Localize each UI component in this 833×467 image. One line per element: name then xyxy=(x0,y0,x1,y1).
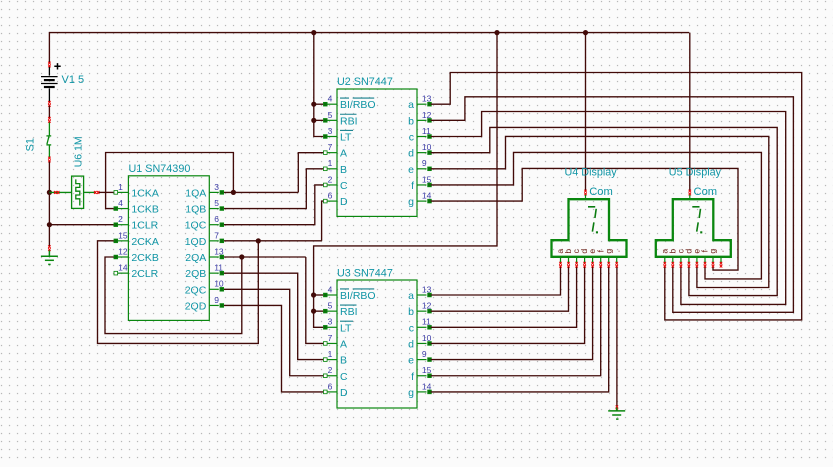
wire U3 f to U4 f xyxy=(431,267,601,376)
svg-text:10: 10 xyxy=(422,142,432,152)
pin marker U5 pin e xyxy=(696,262,699,268)
wire U3 RBI tap xyxy=(314,310,324,312)
U5 pin f stub xyxy=(704,257,706,263)
U2 pin 15 (f) stub xyxy=(417,184,427,186)
svg-text:S1: S1 xyxy=(25,138,37,151)
U2 pin 4 (BI/RBO) stub xyxy=(327,103,337,105)
U2 pin 9 (e) stub xyxy=(417,168,427,170)
svg-text:2QA: 2QA xyxy=(185,252,206,264)
U3 pin 7 (A) stub xyxy=(327,342,337,344)
U4 pin b stub xyxy=(568,257,570,263)
svg-text:1CKB: 1CKB xyxy=(131,204,158,216)
svg-text:a: a xyxy=(408,290,414,302)
svg-text:b: b xyxy=(408,306,414,318)
junction top rail / U3 +5 drop xyxy=(494,30,499,35)
svg-text:2CKA: 2CKA xyxy=(131,236,158,248)
U3 pin 9 (e) stub xyxy=(417,359,427,361)
svg-text:BI/RBO: BI/RBO xyxy=(340,99,376,111)
wire U2 e to U5 e xyxy=(431,136,769,287)
svg-text:1: 1 xyxy=(328,158,333,168)
pin marker U5 Com xyxy=(689,190,692,196)
svg-text:RBI: RBI xyxy=(340,115,358,127)
U2 pin 13 (a) stub xyxy=(417,103,427,105)
wire 2QA row xyxy=(224,256,306,258)
junction U3 BI/RBO xyxy=(311,292,316,297)
svg-text:5: 5 xyxy=(214,198,219,208)
wire S1 to ground rail segment xyxy=(48,162,50,247)
U2 pin 5 (RBI) stub xyxy=(327,119,337,121)
junction 1QA feedback xyxy=(231,190,236,195)
U5 digit segments showing 7. xyxy=(692,207,702,234)
pin marker U4 pin b xyxy=(567,262,570,268)
svg-text:13: 13 xyxy=(422,284,432,294)
U2 pin 3 (LT) stub xyxy=(327,136,337,138)
pin marker battery bottom xyxy=(48,101,51,107)
svg-text:7: 7 xyxy=(328,142,333,152)
U3 pin 4 (BI/RBO) stub xyxy=(327,294,337,296)
U3 pin 5 (RBI) stub xyxy=(327,310,337,312)
U4 pin e stub xyxy=(592,257,594,263)
U5 pin c stub xyxy=(680,257,682,263)
IC U2 body xyxy=(337,89,417,216)
svg-text:14: 14 xyxy=(422,191,432,201)
svg-text:1CLR: 1CLR xyxy=(131,220,158,232)
svg-text:2QC: 2QC xyxy=(185,284,207,296)
svg-text:2: 2 xyxy=(328,174,333,184)
pin marker battery top xyxy=(48,62,51,68)
svg-text:4: 4 xyxy=(328,94,333,104)
U4 pin c stub xyxy=(576,257,578,263)
U1 pin 5 (1QB) stub xyxy=(209,208,219,210)
wire 2QC to U3 C xyxy=(224,289,323,375)
wire U3 d to U4 d xyxy=(431,267,585,344)
wire U2 f to U5 f xyxy=(431,152,762,279)
svg-text:6: 6 xyxy=(214,214,219,224)
wire U4 dp to ground xyxy=(616,267,618,406)
U3 pin 6 (D) stub xyxy=(327,391,337,393)
U1 pin 3 (1QA) stub xyxy=(209,191,219,193)
svg-text:1: 1 xyxy=(118,182,123,192)
U5 pin d stub xyxy=(688,257,690,263)
svg-text:10: 10 xyxy=(214,279,224,289)
wire U2 c to U5 c xyxy=(431,112,786,305)
svg-text:14: 14 xyxy=(422,381,432,391)
U3 pin 12 (b) stub xyxy=(417,310,427,312)
svg-text:1QC: 1QC xyxy=(185,220,207,232)
svg-text:9: 9 xyxy=(422,349,427,359)
U2 pin 14 (g) stub xyxy=(417,200,427,202)
U2 pin 11 (c) stub xyxy=(417,136,427,138)
U2 pin 12 (b) stub xyxy=(417,119,427,121)
svg-text:12: 12 xyxy=(422,301,432,311)
wire top +5V rail xyxy=(49,32,689,34)
svg-text:B: B xyxy=(340,355,347,367)
U2 pin 10 (d) stub xyxy=(417,152,427,154)
svg-text:11: 11 xyxy=(422,317,431,327)
U3 pin 15 (f) stub xyxy=(417,375,427,377)
U2 pin 1 (B) stub xyxy=(327,168,337,170)
U1 pin 6 (1QC) stub xyxy=(209,224,219,226)
svg-text:U6 1M: U6 1M xyxy=(73,136,85,167)
wire U3 b to U4 b xyxy=(431,267,569,311)
svg-text:BI/RBO: BI/RBO xyxy=(340,290,376,302)
U5 pin a stub xyxy=(664,257,666,263)
pin marker U5 pin c xyxy=(680,262,683,268)
svg-text:D: D xyxy=(340,387,348,399)
svg-text:.: . xyxy=(716,250,726,252)
svg-text:5: 5 xyxy=(328,301,333,311)
wire clock to 1CKA xyxy=(99,191,114,193)
svg-text:6: 6 xyxy=(328,381,333,391)
U4 pin d stub xyxy=(584,257,586,263)
wire U2 BI/RBO tap xyxy=(314,103,323,105)
pin marker U4 pin c xyxy=(575,262,578,268)
wire 2QB to U3 B xyxy=(224,273,323,359)
svg-text:5: 5 xyxy=(328,110,333,120)
U5 pin . stub xyxy=(720,257,722,263)
svg-text:14: 14 xyxy=(118,263,128,273)
U3 pin 1 (B) stub xyxy=(327,359,337,361)
svg-text:15: 15 xyxy=(118,230,128,240)
pin marker U5 pin g xyxy=(712,262,715,268)
ground (below U4) xyxy=(608,407,625,419)
svg-text:V1 5: V1 5 xyxy=(62,74,85,86)
pin marker clock right xyxy=(94,191,99,194)
svg-text:g: g xyxy=(408,196,414,208)
wire 2QD to U3 D xyxy=(224,305,323,391)
wire 1QD to 2CKA loop xyxy=(98,241,259,344)
svg-text:C: C xyxy=(340,180,348,192)
IC U3 body xyxy=(337,280,417,408)
svg-text:7: 7 xyxy=(328,333,333,343)
junction top rail / U4 Com drop xyxy=(583,30,588,35)
wire battery to switch S1 xyxy=(48,106,50,118)
junction U2 RBI xyxy=(311,118,316,123)
U4 pin g stub xyxy=(608,257,610,263)
svg-text:3: 3 xyxy=(328,317,333,327)
wire U2 RBI tap xyxy=(314,119,323,121)
svg-text:U3 SN7447: U3 SN7447 xyxy=(337,268,393,280)
svg-text:D: D xyxy=(340,196,348,208)
pin marker U4 pin f xyxy=(599,262,602,268)
U1 pin 4 (1CKB) stub xyxy=(118,208,128,210)
U4 digit segments showing 7. xyxy=(588,207,598,234)
U3 pin 10 (d) stub xyxy=(417,342,427,344)
svg-text:2QB: 2QB xyxy=(185,268,206,280)
svg-text:15: 15 xyxy=(422,365,432,375)
U1 pin 15 (2CKA) stub xyxy=(118,240,128,242)
wire U2 a to U5 a xyxy=(431,73,802,320)
U1 pin 7 (1QD) stub xyxy=(209,240,219,242)
wire 1CLR from rail xyxy=(49,224,113,226)
junction 1CLR branch xyxy=(47,222,52,227)
svg-text:10: 10 xyxy=(422,333,432,343)
svg-text:11: 11 xyxy=(422,126,431,136)
svg-text:1CKA: 1CKA xyxy=(131,187,158,199)
svg-text:A: A xyxy=(340,148,347,160)
junction U3 RBI xyxy=(311,309,316,314)
U1 pin 11 (2QB) stub xyxy=(209,272,219,274)
wire +5V drop to U5 Com xyxy=(689,33,691,191)
U3 pin 14 (g) stub xyxy=(417,391,427,393)
wire left rail top (battery +) xyxy=(48,32,50,63)
svg-text:C: C xyxy=(340,371,348,383)
svg-text:9: 9 xyxy=(214,295,219,305)
junction 1QD to 2CKA xyxy=(256,238,261,243)
ground (left) xyxy=(41,250,58,264)
svg-text:12: 12 xyxy=(118,246,128,256)
svg-text:1QD: 1QD xyxy=(185,236,207,248)
svg-text:a: a xyxy=(408,99,414,111)
wire U2 b to U5 b xyxy=(431,97,794,312)
svg-text:LT: LT xyxy=(340,132,352,144)
wire +5V to U2 BI/RBO,RBI,LT xyxy=(314,33,323,137)
wire clock input (green) xyxy=(49,191,71,193)
svg-text:U5 Display: U5 Display xyxy=(669,167,722,179)
pin marker U4 pin d xyxy=(583,262,586,268)
svg-text:2: 2 xyxy=(328,365,333,375)
svg-text:2: 2 xyxy=(118,214,123,224)
pin marker U4 pin e xyxy=(591,262,594,268)
pin marker U4 pin a xyxy=(559,262,562,268)
pin marker U5 pin d xyxy=(688,262,691,268)
svg-text:c: c xyxy=(409,132,414,144)
svg-text:7: 7 xyxy=(214,230,219,240)
pin marker U4 Com xyxy=(584,190,587,196)
svg-text:A: A xyxy=(340,338,347,350)
pin marker U4 pin g xyxy=(607,262,610,268)
U3 pin 13 (a) stub xyxy=(417,294,427,296)
svg-text:f: f xyxy=(411,371,414,383)
wire +5V to U3 BI/RBO,RBI,LT xyxy=(314,33,497,328)
U1 pin 2 (1CLR) stub xyxy=(118,224,128,226)
U1 pin 14 (2CLR) stub xyxy=(118,272,128,274)
wire 1QC to U2 C xyxy=(224,185,323,225)
svg-text:13: 13 xyxy=(214,246,224,256)
svg-text:g: g xyxy=(408,387,414,399)
svg-text:c: c xyxy=(409,322,414,334)
wire U3 BI/RBO tap xyxy=(314,294,324,296)
svg-text:B: B xyxy=(340,164,347,176)
U2 pin 6 (D) stub xyxy=(327,200,337,202)
pin marker S1 top xyxy=(48,117,51,123)
pin marker U5 pin b xyxy=(672,262,675,268)
svg-text:2CLR: 2CLR xyxy=(131,268,158,280)
U5 pin b stub xyxy=(672,257,674,263)
svg-text:d: d xyxy=(408,338,414,350)
U1 pin 12 (2CKB) stub xyxy=(118,256,128,258)
svg-text:11: 11 xyxy=(214,263,223,273)
wire U3 e to U4 e xyxy=(431,267,593,360)
svg-text:15: 15 xyxy=(422,174,432,184)
U1 pin 9 (2QD) stub xyxy=(209,304,219,306)
wire 1QA to U2 A xyxy=(298,153,323,193)
pin marker clock left xyxy=(54,191,59,194)
wire 1QD row xyxy=(224,240,322,242)
svg-text:U4 Display: U4 Display xyxy=(565,167,618,179)
pin marker above ground xyxy=(48,245,51,251)
seven-segment display U4 xyxy=(552,195,627,257)
wire 2QA to U3 A xyxy=(306,257,323,343)
U1 pin 1 (1CKA) stub xyxy=(118,191,128,193)
pin marker U5 pin f xyxy=(704,262,707,268)
wire U2 d to U5 d xyxy=(431,127,777,295)
pin marker U4 pin . xyxy=(615,262,618,268)
svg-text:U2 SN7447: U2 SN7447 xyxy=(337,76,393,88)
wire clock output (green) xyxy=(84,191,95,193)
wire 2QA to 2CKB loop xyxy=(105,257,242,334)
U5 pin g stub xyxy=(712,257,714,263)
svg-text:e: e xyxy=(408,355,414,367)
svg-text:Com: Com xyxy=(694,186,718,198)
svg-text:9: 9 xyxy=(422,158,427,168)
U2 pin 7 (A) stub xyxy=(327,152,337,154)
U5 pin e stub xyxy=(696,257,698,263)
svg-text:3: 3 xyxy=(214,182,219,192)
svg-text:U1 SN74390: U1 SN74390 xyxy=(129,163,191,175)
wire U3 c to U4 c xyxy=(431,267,577,327)
svg-text:b: b xyxy=(408,115,414,127)
svg-text:.: . xyxy=(611,250,621,252)
junction 2QA to 2CKB xyxy=(239,254,244,259)
U4 pin f stub xyxy=(600,257,602,263)
wire U3 g to U4 g xyxy=(431,267,609,392)
U4 pin . stub xyxy=(616,257,618,263)
wire +5V drop to U4 Com xyxy=(585,33,587,191)
wire 1QB to U2 B xyxy=(224,169,323,209)
svg-text:2QD: 2QD xyxy=(185,300,207,312)
junction top rail / U2 BI-RBO drop xyxy=(311,30,316,35)
U1 pin 13 (2QA) stub xyxy=(209,256,219,258)
switch S1 xyxy=(46,122,51,157)
U1 pin 10 (2QC) stub xyxy=(209,288,219,290)
svg-text:d: d xyxy=(408,148,414,160)
U3 pin 11 (c) stub xyxy=(417,326,427,328)
svg-text:2CKB: 2CKB xyxy=(131,252,158,264)
pin marker U4 dp ground xyxy=(616,405,619,411)
battery V1 5 xyxy=(41,63,61,102)
svg-text:1QA: 1QA xyxy=(185,187,206,199)
svg-text:RBI: RBI xyxy=(340,306,358,318)
svg-text:6: 6 xyxy=(328,191,333,201)
U4 pin a stub xyxy=(560,257,562,263)
svg-text:LT: LT xyxy=(340,322,352,334)
svg-text:4: 4 xyxy=(118,198,123,208)
junction clock branch xyxy=(47,190,52,195)
seven-segment display U5 xyxy=(656,195,731,257)
pin marker S1 bottom xyxy=(48,157,51,163)
svg-text:1: 1 xyxy=(328,349,333,359)
wire 1QA row xyxy=(224,191,298,193)
svg-text:1QB: 1QB xyxy=(185,204,206,216)
wire 1QD to U2 D xyxy=(322,201,324,241)
pin marker U5 pin . xyxy=(720,262,723,268)
U2 pin 2 (C) stub xyxy=(327,184,337,186)
svg-text:12: 12 xyxy=(422,110,432,120)
svg-text:13: 13 xyxy=(422,94,432,104)
wire 1QA to 1CKB feedback loop xyxy=(106,153,234,209)
svg-text:f: f xyxy=(411,180,414,192)
pin marker U5 pin a xyxy=(664,262,667,268)
U3 pin 2 (C) stub xyxy=(327,375,337,377)
junction U2 BI/RBO xyxy=(311,102,316,107)
wire U2 g to U5 g xyxy=(431,168,738,270)
svg-text:4: 4 xyxy=(328,284,333,294)
U3 pin 3 (LT) stub xyxy=(327,326,337,328)
svg-text:Com: Com xyxy=(589,186,613,198)
IC U1 body xyxy=(128,176,209,321)
svg-text:e: e xyxy=(408,164,414,176)
wire U3 a to U4 a xyxy=(431,267,561,295)
svg-text:3: 3 xyxy=(328,126,333,136)
clock source U6 1M xyxy=(72,176,84,208)
